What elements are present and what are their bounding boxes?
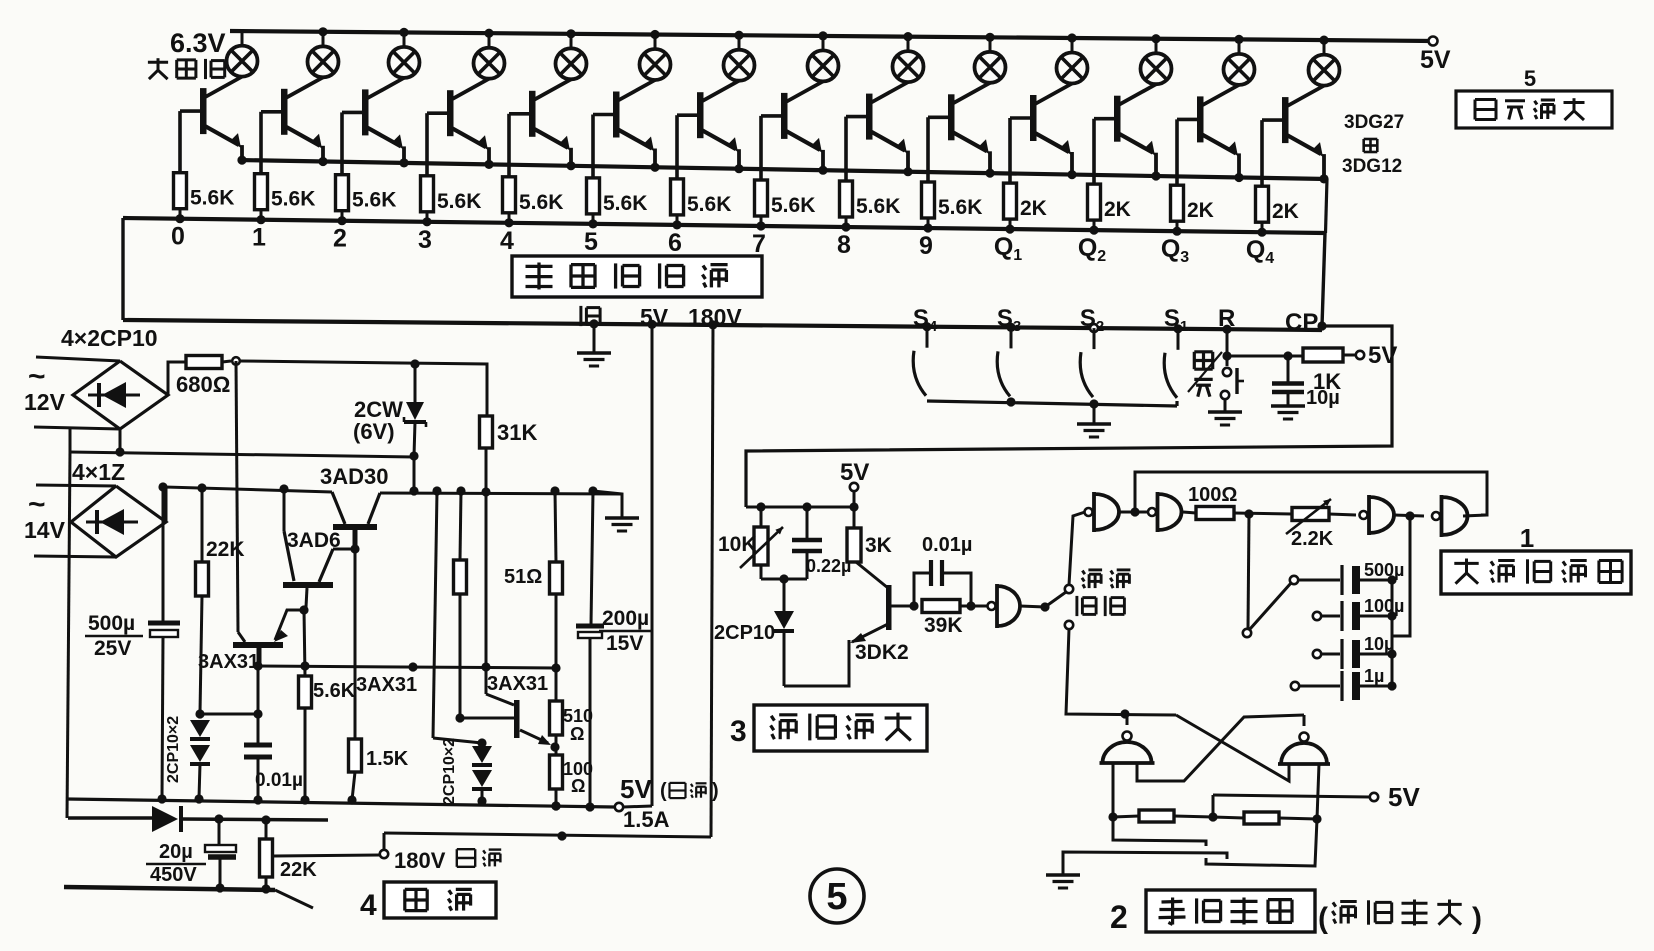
wire zener node to 14V rail xyxy=(413,456,416,491)
pin 地 (ground) of counter board xyxy=(581,306,600,352)
counter board left edge xyxy=(121,218,124,320)
wire bottom negative line xyxy=(64,883,313,908)
lamp DS4 (indicator bulb 3) xyxy=(474,29,505,79)
resistor 51Ω xyxy=(504,491,563,673)
resistor R8 5.6K xyxy=(755,180,816,231)
svg-text:14V: 14V xyxy=(24,517,66,543)
svg-text:4: 4 xyxy=(360,889,377,922)
wire rail stub to ground xyxy=(593,491,622,517)
transistor V8 (lamp driver 7) xyxy=(781,81,828,174)
wire 10K/0.22µ bottom link xyxy=(761,578,807,581)
capacitor 100µ (timing) xyxy=(1313,596,1405,631)
svg-text:5V: 5V xyxy=(840,459,869,486)
resistor R14 2K xyxy=(1256,186,1299,237)
rheostat 10K (modulation depth) xyxy=(718,507,783,579)
svg-text:5: 5 xyxy=(584,228,598,256)
resistor R10 5.6K xyxy=(922,182,983,233)
resistor R2 5.6K xyxy=(255,174,316,225)
gate G3 (multivibrator) xyxy=(1360,511,1368,519)
wire R node to 1K resistor xyxy=(1227,355,1302,358)
svg-text:): ) xyxy=(1472,902,1482,935)
lamp DS8 (indicator bulb 7) xyxy=(808,31,839,81)
capacitor 0.22µ xyxy=(792,507,851,579)
resistor R5 5.6K xyxy=(503,177,564,228)
svg-text:9: 9 xyxy=(919,232,933,260)
lamp DS7 (indicator bulb 6) xyxy=(724,31,755,81)
wire lower contact down to flip-flop xyxy=(1066,629,1176,715)
wire emitter bus to counter board corner xyxy=(1326,179,1328,233)
lamp DS2 (indicator bulb 1) xyxy=(308,27,339,77)
wire base of V12 to resistor xyxy=(1094,119,1117,184)
counter board outline top bus (outputs 0-9,Q1-Q4) xyxy=(123,218,1325,233)
transistor 3DK2 (modulator) xyxy=(850,562,914,664)
svg-text:5.6K: 5.6K xyxy=(190,187,234,210)
wire capacitor common bus xyxy=(1391,580,1394,686)
svg-text:0.01µ: 0.01µ xyxy=(255,770,303,791)
resistor R16 (flip-flop right) xyxy=(1213,812,1317,824)
wire capacitor bus to G3/G4 node xyxy=(1392,516,1410,636)
svg-text:7: 7 xyxy=(752,230,766,258)
lamp DS12 (indicator bulb Q2) xyxy=(1141,34,1172,84)
transistor V6 (lamp driver 5) xyxy=(613,80,660,172)
switch capacitor selector arm xyxy=(1243,583,1291,637)
switch S2 (preset switch) xyxy=(1080,305,1104,397)
wire gate output to selector xyxy=(1020,606,1045,607)
svg-text:3: 3 xyxy=(730,715,747,748)
wire bridge B1 + output xyxy=(168,362,186,395)
svg-text:): ) xyxy=(712,780,719,802)
lamp DS10 (indicator bulb 9) xyxy=(975,33,1006,83)
wire G6 right leg xyxy=(1317,764,1319,819)
wire base of V3 to resistor xyxy=(342,112,365,174)
switch pulse selector arm xyxy=(1045,592,1066,607)
wire base of V13 to resistor xyxy=(1177,119,1200,185)
svg-text:5.6K: 5.6K xyxy=(603,192,647,215)
switch micro-switch upper throw xyxy=(1113,817,1206,846)
svg-text:5.6K: 5.6K xyxy=(352,189,396,212)
resistor 510Ω xyxy=(550,668,594,747)
wire G5 left leg xyxy=(1112,763,1115,817)
svg-text:4×2CP10: 4×2CP10 xyxy=(61,325,158,351)
svg-text:2K: 2K xyxy=(1104,198,1131,221)
svg-text:2: 2 xyxy=(333,225,347,253)
svg-text:5: 5 xyxy=(826,876,847,918)
label 小电珠 (small lamp) xyxy=(148,61,168,64)
resistor 22K (bleeder, adjustable) xyxy=(260,820,381,889)
svg-text:5.6K: 5.6K xyxy=(771,194,815,217)
gate G4 (multivibrator) xyxy=(1432,512,1440,520)
counter board right edge xyxy=(1322,233,1325,326)
resistor 100Ω (power) xyxy=(550,747,594,811)
svg-text:100Ω: 100Ω xyxy=(1188,484,1237,506)
transistor 3AX31 first (error amp) xyxy=(198,361,304,673)
gate G2 (multivibrator) xyxy=(1148,508,1156,516)
resistor 39K (base) xyxy=(922,600,988,638)
wire G4 out xyxy=(1463,515,1487,516)
lamp DS6 (indicator bulb 5) xyxy=(640,30,671,80)
svg-text:15V: 15V xyxy=(606,632,643,655)
svg-text:3: 3 xyxy=(418,226,432,254)
wire cross coupling B xyxy=(1137,715,1304,781)
svg-text:3AX31: 3AX31 xyxy=(487,673,548,695)
svg-text:3AX31: 3AX31 xyxy=(356,674,417,696)
svg-text:2: 2 xyxy=(1110,899,1128,935)
counter board bottom edge xyxy=(123,320,1322,330)
rectifier bridge B2 (4x1Z) xyxy=(71,486,166,557)
wire cross coupling A xyxy=(1176,715,1289,781)
capacitor 200µ/15V (output filter) xyxy=(576,491,651,812)
svg-text:(: ( xyxy=(660,780,667,802)
diode 2CW zener (6V) xyxy=(353,364,426,456)
resistor 1.5K xyxy=(349,739,409,800)
wire emitter to diode node xyxy=(433,738,482,743)
wire emitter feed line xyxy=(433,491,437,738)
svg-text:1: 1 xyxy=(252,224,266,252)
wire 180V link to counter board line xyxy=(384,833,711,837)
resistor 22K (left) xyxy=(196,488,245,713)
lamp DS11 (indicator bulb Q1) xyxy=(1057,33,1088,83)
diode pair 2CP10x2 (right reference) xyxy=(441,738,492,805)
wire common emitter bus xyxy=(238,160,1327,179)
wire base of V10 to resistor xyxy=(928,117,951,182)
ground symbol under 10µ xyxy=(1271,404,1305,407)
svg-text:2K: 2K xyxy=(1272,200,1299,223)
wire base of V6 to resistor xyxy=(593,115,616,178)
resistor R1 5.6K xyxy=(174,173,235,224)
resistor R15 (flip-flop left) xyxy=(1113,810,1213,822)
wire S1 bottom corner xyxy=(1175,401,1178,406)
capacitor 10µ (reset filter) xyxy=(1272,356,1340,409)
svg-text:10K: 10K xyxy=(718,533,757,556)
svg-text:Ω: Ω xyxy=(571,776,585,796)
svg-text:Ω: Ω xyxy=(570,724,584,744)
diode pair 2CP10x2 (left reference) xyxy=(165,716,210,798)
svg-text:6.3V: 6.3V xyxy=(170,28,226,58)
resistor R12 2K xyxy=(1088,184,1131,235)
svg-text:680Ω: 680Ω xyxy=(176,372,230,397)
svg-text:5V: 5V xyxy=(620,774,652,804)
resistor 5.6K (power divider) xyxy=(299,610,356,800)
wire upper contact to gate G1 input xyxy=(1069,512,1085,585)
wire mid rail xyxy=(70,452,414,457)
gate G1 (multivibrator) xyxy=(1085,508,1093,516)
svg-text:3DG12: 3DG12 xyxy=(1342,156,1402,177)
transistor 3AD6 (driver) xyxy=(283,489,341,607)
svg-text:450V: 450V xyxy=(150,864,197,886)
wire 5V feed line xyxy=(1213,795,1370,817)
capacitor 500µ/25V (filter) xyxy=(85,487,180,798)
capacitor 0.01µ (bypass) xyxy=(914,534,972,606)
wire bridge B1 bottom to mid rail xyxy=(70,427,125,457)
wire base reference line xyxy=(258,666,556,668)
svg-text:5.6K: 5.6K xyxy=(437,190,481,213)
switch S3 (preset switch) xyxy=(997,305,1021,396)
svg-text:25V: 25V xyxy=(94,637,131,660)
wire left edge down to bottom rail xyxy=(67,452,70,818)
label box 计数插件板 (counter plug-in board) xyxy=(512,256,762,297)
wire 3AD30 base node xyxy=(333,548,355,551)
transistor V7 (lamp driver 6) xyxy=(697,81,744,174)
wire base of V1 to resistor xyxy=(180,111,203,173)
box section 3 调幅部分 (AM part) xyxy=(730,705,927,751)
svg-text:3AD30: 3AD30 xyxy=(320,464,388,489)
transistor V12 (lamp driver Q2) xyxy=(1114,84,1161,180)
label 连续脉冲 (continuous pulse) xyxy=(1077,570,1131,616)
svg-text:180V: 180V xyxy=(394,848,446,873)
lamp DS14 (indicator bulb Q4) xyxy=(1309,36,1340,86)
ground symbol under 地 pin xyxy=(577,351,611,354)
svg-text:20µ: 20µ xyxy=(159,841,193,863)
diode 2CP10 (detector) xyxy=(714,579,794,686)
transistor V2 (lamp driver 1) xyxy=(281,77,328,166)
pin CP (clock input) xyxy=(1285,309,1327,336)
wire base of V11 to resistor xyxy=(1010,118,1033,183)
wire G2 out xyxy=(1183,512,1196,513)
lamp DS9 (indicator bulb 8) xyxy=(893,32,924,82)
lamp DS1 (indicator bulb 0) xyxy=(227,31,258,77)
resistor 3K xyxy=(847,507,892,562)
resistor 1K (CP pull-up) xyxy=(1303,348,1356,394)
wire base of V2 to resistor xyxy=(261,112,284,174)
capacitor 10µ (timing) xyxy=(1313,634,1397,669)
resistor R9 5.6K xyxy=(840,181,901,232)
svg-text:8: 8 xyxy=(837,231,851,259)
terminal 5V adjustable output xyxy=(615,774,719,832)
svg-text:5.6K: 5.6K xyxy=(856,195,900,218)
wire 5V line down to power supply output xyxy=(651,324,654,806)
svg-text:100µ: 100µ xyxy=(1364,596,1404,616)
svg-text:1.5A: 1.5A xyxy=(623,807,670,832)
resistor R4 5.6K xyxy=(421,176,482,227)
ground symbol (power mid) xyxy=(605,516,639,519)
resistor R11 2K xyxy=(1004,183,1047,234)
resistor 680Ω xyxy=(176,356,231,398)
svg-text:0.22µ: 0.22µ xyxy=(806,556,851,576)
contact lower (manual pulse) xyxy=(1065,621,1073,629)
wire top 6.3V supply bus xyxy=(230,31,1433,41)
wire CP loop to pulse selector xyxy=(746,326,1392,507)
svg-text:5.6K: 5.6K xyxy=(313,680,356,702)
svg-text:5.6K: 5.6K xyxy=(938,196,982,219)
wire 14V rail right part (regulator output) xyxy=(380,493,622,494)
svg-text:1µ: 1µ xyxy=(1364,666,1384,686)
resistor R6 5.6K xyxy=(587,178,648,229)
wire base of V7 to resistor xyxy=(677,115,700,179)
wire to timing node xyxy=(1234,513,1292,514)
switch micro-switch lower throw xyxy=(1206,819,1317,866)
box section 2 手动计数 (manual counting) xyxy=(1110,890,1315,935)
transistor V14 (lamp driver Q4) xyxy=(1282,86,1329,184)
svg-text:CP: CP xyxy=(1285,309,1318,336)
lamp DS13 (indicator bulb Q3) xyxy=(1224,35,1255,85)
box section 4 电源 (power supply) xyxy=(360,882,496,922)
switch S1 (preset switch) xyxy=(1164,305,1188,398)
resistor 31K xyxy=(480,416,538,694)
diode rectifier (180V line) xyxy=(68,806,328,832)
wire base of V8 to resistor xyxy=(761,116,784,180)
terminal 180V adjustable output xyxy=(380,833,501,873)
svg-text:3DG27: 3DG27 xyxy=(1344,112,1404,133)
svg-text:500µ: 500µ xyxy=(1364,560,1404,580)
resistor R7 5.6K xyxy=(671,179,732,230)
transistor 3AD30 (series regulator) xyxy=(320,464,388,549)
svg-text:10µ: 10µ xyxy=(1306,387,1340,409)
svg-text:5.6K: 5.6K xyxy=(271,188,315,211)
capacitor 500µ (timing) xyxy=(1290,560,1405,595)
pushbutton R (reset button) xyxy=(1218,305,1244,411)
rheostat 2.2K (frequency adjust) xyxy=(1286,499,1356,550)
lamp DS5 (indicator bulb 4) xyxy=(556,29,587,79)
svg-text:12V: 12V xyxy=(24,389,66,415)
svg-text:5.6K: 5.6K xyxy=(519,191,563,214)
wire G3 out to G4 in xyxy=(1395,515,1424,516)
box section 5 display part 显示部分 xyxy=(1456,66,1612,128)
wire G1 output node xyxy=(1120,511,1150,514)
svg-text:1: 1 xyxy=(1520,523,1534,553)
label (微动开关) micro switch xyxy=(1318,900,1482,936)
transistor V3 (lamp driver 2) xyxy=(362,78,409,168)
transistor V5 (lamp driver 4) xyxy=(529,79,576,170)
capacitor 20µ/450V xyxy=(146,819,236,889)
capacitor 1µ (timing) xyxy=(1291,666,1397,701)
gate D1 (pulse shaper) xyxy=(988,602,996,610)
resistor (divider top) on base feed xyxy=(454,491,467,723)
svg-text:4: 4 xyxy=(500,227,514,255)
wire timing node down to capacitor selector pivot xyxy=(1248,514,1249,628)
svg-text:2CP10: 2CP10 xyxy=(714,622,775,644)
transistor V13 (lamp driver Q3) xyxy=(1197,85,1244,182)
svg-text:4×1Z: 4×1Z xyxy=(72,459,125,485)
transistor V10 (lamp driver 9) xyxy=(948,83,995,178)
transistor V11 (lamp driver Q1) xyxy=(1030,84,1077,180)
svg-text:5: 5 xyxy=(1524,66,1536,91)
wire switch common bottom line xyxy=(927,401,1177,406)
svg-text:(: ( xyxy=(1318,902,1328,935)
ground symbol under switch common xyxy=(1093,404,1096,423)
wire 180V line down to power supply xyxy=(711,325,713,837)
svg-text:2CP10×2: 2CP10×2 xyxy=(165,716,182,783)
terminal 5V (top right) xyxy=(1429,37,1438,46)
ground symbol under pushbutton R xyxy=(1208,410,1242,413)
gate G5 (RS flip-flop left) xyxy=(1100,714,1155,763)
label ~12V AC input xyxy=(24,360,66,415)
terminal 5V (flip-flop supply) xyxy=(1370,782,1421,812)
pin 180V of counter board xyxy=(688,304,742,330)
terminal 5V (AM section supply) xyxy=(840,459,869,507)
svg-text:22K: 22K xyxy=(280,859,317,881)
resistor R13 2K xyxy=(1171,185,1214,236)
resistor 100Ω xyxy=(1188,484,1237,520)
wire AC input lines to bridge B2 xyxy=(34,485,116,557)
svg-text:2K: 2K xyxy=(1187,199,1214,222)
box section 1 多谐振荡器 (multivibrator) xyxy=(1441,523,1631,594)
wire AC input lines to bridge B1 xyxy=(34,357,120,429)
wire base of V9 to resistor xyxy=(846,117,869,181)
svg-text:39K: 39K xyxy=(924,614,963,637)
resistor R3 5.6K xyxy=(336,175,397,226)
transistor 3AX31 second (feedback) xyxy=(460,673,551,745)
ground symbol (flip-flop) xyxy=(1046,873,1080,876)
wire diode to 3DK2 emitter loop xyxy=(784,640,849,686)
svg-text:3AX31: 3AX31 xyxy=(198,651,259,673)
switch S4 (preset switch) xyxy=(913,305,938,396)
wire base of V14 to resistor xyxy=(1262,120,1285,186)
svg-text:5.6K: 5.6K xyxy=(687,193,731,216)
svg-text:3AD6: 3AD6 xyxy=(287,529,341,552)
wire base node down to 1.5K xyxy=(354,549,357,739)
transistor V9 (lamp driver 8) xyxy=(866,82,913,176)
svg-text:31K: 31K xyxy=(497,420,537,445)
lamp DS3 (indicator bulb 2) xyxy=(389,28,420,78)
svg-text:3DK2: 3DK2 xyxy=(855,641,909,664)
svg-text:6: 6 xyxy=(668,229,682,257)
label 复零 (reset) scribble xyxy=(1188,352,1222,397)
svg-text:51Ω: 51Ω xyxy=(504,566,542,588)
label figure number 5 (circled) xyxy=(810,869,864,923)
wire bottom 5V output rail xyxy=(67,799,614,807)
transistor V1 (lamp driver 0) xyxy=(200,77,247,165)
svg-text:2K: 2K xyxy=(1020,197,1047,220)
svg-text:2.2K: 2.2K xyxy=(1291,528,1334,550)
svg-text:(6V): (6V) xyxy=(353,419,395,444)
svg-text:1.5K: 1.5K xyxy=(366,748,409,770)
svg-text:0.01µ: 0.01µ xyxy=(922,534,972,556)
wire diode node link xyxy=(200,713,258,716)
wire base of V4 to resistor xyxy=(427,113,450,176)
pin 5V of counter board xyxy=(640,304,669,330)
node 680Ω output xyxy=(232,357,240,365)
rectifier bridge B1 (4x2CP10) xyxy=(73,361,168,429)
svg-text:2CP10×2: 2CP10×2 xyxy=(441,738,458,805)
label ~14V AC input xyxy=(24,488,66,543)
svg-text:500µ: 500µ xyxy=(88,612,135,635)
svg-text:10µ: 10µ xyxy=(1364,634,1394,654)
wire bridge B2 + to 14V rail xyxy=(166,487,332,522)
svg-text:5V: 5V xyxy=(1388,782,1420,812)
svg-text:200µ: 200µ xyxy=(602,607,649,630)
capacitor 0.01µ (power) xyxy=(244,666,303,799)
contact upper (continuous pulse) xyxy=(1065,585,1073,593)
wire feedback loop top xyxy=(1135,472,1487,515)
transistor V4 (lamp driver 3) xyxy=(447,79,494,169)
terminal 5V (pull-up supply) xyxy=(1356,342,1398,369)
svg-text:0: 0 xyxy=(171,223,185,251)
switch micro-switch common (ground) xyxy=(1063,852,1227,874)
svg-text:5V: 5V xyxy=(1420,46,1451,74)
wire base of V5 to resistor xyxy=(509,114,532,177)
svg-text:3K: 3K xyxy=(865,534,892,557)
wire AM top rail xyxy=(746,506,854,509)
wire 680Ω rail to 31K xyxy=(240,361,487,416)
gate G6 (RS flip-flop right) xyxy=(1278,715,1330,764)
